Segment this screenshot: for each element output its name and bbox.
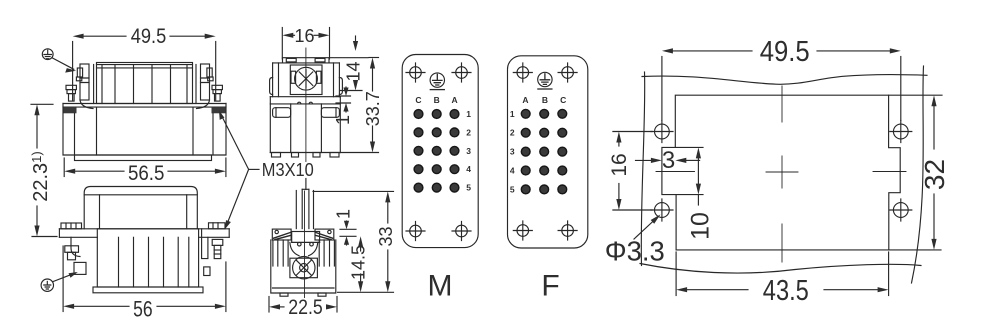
svg-text:1: 1 xyxy=(466,109,471,119)
svg-text:F: F xyxy=(541,270,559,303)
clip right xyxy=(321,108,339,118)
view B: female connector side view (bottom-left) xyxy=(41,187,229,293)
svg-text:10: 10 xyxy=(686,212,714,240)
dimension 49.5 (panel top) xyxy=(662,36,901,121)
screw shaft top xyxy=(302,188,309,190)
hood rib 3 xyxy=(151,65,153,104)
body bottom lip xyxy=(93,287,203,293)
bell top line xyxy=(292,241,320,243)
right bracket tab xyxy=(207,68,212,77)
upper side left xyxy=(272,63,274,97)
centerline D xyxy=(304,191,306,298)
M corner hole TR xyxy=(452,63,471,82)
view D: female connector end view (bottom-middle) xyxy=(271,189,336,297)
center tick bottom xyxy=(781,224,783,262)
left screw head xyxy=(66,85,76,89)
cutout top edge extension xyxy=(889,94,942,96)
body step right2 xyxy=(212,113,214,155)
svg-text:3: 3 xyxy=(466,146,471,156)
body flange line xyxy=(63,103,226,105)
dimension 10 (panel notch height) xyxy=(686,147,714,240)
leader arrowhead A xyxy=(65,68,76,73)
flange left edge xyxy=(58,229,60,238)
flange right edge xyxy=(228,229,230,238)
dimension 33.7 (view C far right) xyxy=(340,58,383,153)
screw slot vertical xyxy=(305,70,307,89)
body flange line2 xyxy=(63,106,226,108)
right flat screw head xyxy=(209,223,226,229)
svg-text:5: 5 xyxy=(510,184,515,194)
svg-text:3: 3 xyxy=(662,147,675,174)
top tab right xyxy=(315,58,325,62)
hood side wall left xyxy=(93,65,95,104)
bottom edge C xyxy=(270,152,340,154)
center block left wall xyxy=(290,104,292,153)
earth glyph B xyxy=(44,282,51,290)
hood inner top line2 xyxy=(97,67,193,69)
svg-text:C: C xyxy=(415,95,421,105)
screw shaft outer right xyxy=(313,191,315,229)
M ground contact symbol xyxy=(430,73,444,90)
screw shaft outer left xyxy=(295,191,297,229)
side latch right xyxy=(339,78,342,95)
screw shaft inner left xyxy=(301,189,303,228)
foot D right xyxy=(318,293,326,296)
clip left inner xyxy=(275,108,277,118)
leader to view D screw xyxy=(305,179,307,190)
hood side wall right xyxy=(195,65,197,104)
foot 4 xyxy=(330,153,339,158)
center block right wall xyxy=(320,104,322,153)
svg-text:1: 1 xyxy=(334,209,354,219)
dimension 22.3 (left vertical) xyxy=(29,104,57,236)
foot 3 xyxy=(313,153,320,158)
left bracket tab xyxy=(77,68,82,77)
hood inner wall left xyxy=(101,65,103,104)
dimension 14 (view C right) xyxy=(330,36,368,91)
right small tab xyxy=(204,267,210,276)
tiny bump right xyxy=(309,102,312,104)
mid centerline left xyxy=(656,171,695,173)
foot 1 xyxy=(272,153,281,158)
left outer edge xyxy=(269,97,271,153)
svg-text:A: A xyxy=(452,95,458,105)
ground symbol top-left xyxy=(42,49,76,73)
hood rib 2 xyxy=(133,65,135,104)
ribbed hood outline xyxy=(97,63,193,104)
svg-text:M: M xyxy=(428,270,453,303)
dimension 1 (view C right) xyxy=(333,87,353,125)
flange right clamp xyxy=(315,229,334,240)
svg-text:56: 56 xyxy=(133,296,153,321)
left flat screw hatch xyxy=(65,223,67,229)
left clamp dark band xyxy=(63,107,77,113)
panel cutout drawing (right) xyxy=(605,36,950,307)
left clamp spring xyxy=(274,233,291,240)
right J-lever xyxy=(197,100,210,109)
left flat screw hatch3 xyxy=(75,223,77,229)
left lower screw head xyxy=(65,246,79,253)
dimension 56.5 (view A bottom) xyxy=(64,158,226,185)
left clamp nub xyxy=(275,230,278,233)
screw circle D xyxy=(293,257,315,279)
right lower screw thread xyxy=(214,249,221,251)
panel torn outline xyxy=(642,74,927,84)
hole BR xyxy=(890,199,912,221)
M corner hole BR xyxy=(452,222,471,241)
svg-text:49.5: 49.5 xyxy=(131,25,167,48)
left bracket column lines xyxy=(80,78,89,83)
mid line 2 xyxy=(270,103,340,105)
side latch left xyxy=(270,78,273,95)
right bracket tab2 xyxy=(208,77,213,81)
F corner hole BR xyxy=(558,221,577,240)
svg-text:14.5: 14.5 xyxy=(349,245,369,280)
body step left2 xyxy=(96,107,98,155)
right flat screw hatch2 xyxy=(217,223,219,229)
hood rib 4 xyxy=(170,65,172,104)
body rib 6 xyxy=(188,237,190,287)
notch bottom extension xyxy=(676,194,703,196)
hole TL xyxy=(651,120,673,142)
bell left curve xyxy=(290,242,299,255)
right lower screw thread2 xyxy=(214,253,221,255)
body outline xyxy=(63,104,226,156)
left clamp block xyxy=(74,262,86,274)
left J-bracket xyxy=(71,237,80,256)
clip right inner xyxy=(335,108,337,118)
clip left xyxy=(273,108,291,118)
dimension 3 (panel notch depth) xyxy=(636,147,700,174)
M corner hole TL xyxy=(406,63,425,82)
M row numbers xyxy=(466,109,471,193)
body rib 3 xyxy=(148,237,150,287)
hood inner top line xyxy=(97,64,193,66)
right arm lines xyxy=(319,240,329,266)
flange line2 left xyxy=(59,236,97,238)
right arm outer xyxy=(333,240,335,266)
right clamp spring xyxy=(316,233,333,240)
svg-text:1: 1 xyxy=(510,109,515,119)
center cross xyxy=(766,156,798,188)
svg-text:33.7: 33.7 xyxy=(363,91,383,126)
F column labels xyxy=(522,95,566,105)
dimension 16 (panel left) xyxy=(608,132,652,211)
svg-text:2: 2 xyxy=(466,127,471,137)
right bracket column xyxy=(201,64,210,100)
svg-text:22.5: 22.5 xyxy=(288,296,323,319)
M column labels xyxy=(415,95,457,105)
right screw shaft xyxy=(215,94,221,102)
center tick top xyxy=(781,86,783,122)
hood top inner line xyxy=(84,194,197,196)
svg-text:43.5: 43.5 xyxy=(763,275,809,307)
leader to clamp block xyxy=(53,273,76,282)
left flat screw hatch2 xyxy=(70,223,72,229)
right lower screw head xyxy=(212,239,223,245)
body bottom lip xyxy=(75,155,212,161)
svg-text:B: B xyxy=(542,95,548,105)
left screw shaft xyxy=(69,94,75,102)
cutout bottom edge extension xyxy=(889,249,941,251)
insert face M (male) xyxy=(402,55,478,303)
body rib 5 xyxy=(177,237,179,287)
foot 2 xyxy=(292,153,299,158)
svg-text:22.31): 22.31) xyxy=(29,151,52,202)
M pin grid xyxy=(414,110,459,192)
top edge xyxy=(273,62,340,64)
svg-text:C: C xyxy=(560,95,566,105)
dimension 33 (view D far right) xyxy=(313,191,396,292)
right clamp nub xyxy=(328,230,331,233)
view C: male connector end view (top-middle) xyxy=(270,48,343,162)
screw housing xyxy=(290,65,322,95)
dimension 49.5 (view A top) xyxy=(73,25,216,100)
screw shaft inner right xyxy=(308,189,310,228)
right flat screw hatch xyxy=(212,223,214,229)
leader from ground symbol xyxy=(52,58,74,70)
flange center plate xyxy=(292,232,320,243)
svg-text:2: 2 xyxy=(510,128,515,138)
upper inner line xyxy=(278,63,280,97)
F ground contact symbol xyxy=(538,72,552,89)
svg-text:3: 3 xyxy=(510,147,515,157)
flange line xyxy=(59,228,229,230)
left J-lever xyxy=(80,100,93,109)
leader arrowhead B xyxy=(69,272,78,278)
dimension 22.5 (view D bottom) xyxy=(269,296,337,319)
left bracket column xyxy=(80,64,89,100)
upper side right xyxy=(338,63,340,97)
hole BL xyxy=(651,199,673,221)
body rib 4 xyxy=(163,237,165,287)
mid line 1 xyxy=(270,96,340,98)
top tab left xyxy=(286,58,296,62)
F corner hole TL xyxy=(513,63,532,82)
svg-text:4: 4 xyxy=(510,166,515,176)
svg-text:B: B xyxy=(434,95,440,105)
left arm lines xyxy=(278,240,288,266)
tiny bump left xyxy=(298,102,301,104)
left lower screw shaft xyxy=(68,252,76,259)
svg-text:4: 4 xyxy=(466,164,471,174)
bell nub right xyxy=(310,242,314,246)
F pin grid xyxy=(521,109,566,193)
F row numbers xyxy=(510,109,515,195)
right clamp dark band xyxy=(212,107,226,113)
body rib 2 xyxy=(133,237,135,287)
dimension 1 (view D) xyxy=(334,209,357,245)
M outline xyxy=(402,55,478,248)
F outline xyxy=(508,56,588,248)
svg-text:32: 32 xyxy=(919,159,950,190)
phillips slot X D xyxy=(296,260,311,275)
dimension 43.5 (panel bottom) xyxy=(676,252,889,307)
left bracket tab2 xyxy=(76,77,81,81)
svg-text:49.5: 49.5 xyxy=(760,36,810,68)
body outline D xyxy=(271,240,336,293)
F corner hole BL xyxy=(513,221,532,240)
hood inner wall left xyxy=(99,195,101,229)
phillips slot X xyxy=(299,72,313,86)
body step left xyxy=(74,113,76,155)
side wing left xyxy=(291,71,296,83)
M corner hole BL xyxy=(406,222,425,241)
right L-bracket xyxy=(202,229,208,259)
dimension 16 (view C top) xyxy=(282,26,329,59)
dimension 56 (view B bottom) xyxy=(63,246,226,321)
cutout opening xyxy=(662,95,900,250)
body rib 1 xyxy=(118,237,120,287)
screw circle C xyxy=(295,67,318,90)
svg-text:1: 1 xyxy=(333,115,353,125)
earth symbol circle B xyxy=(41,279,53,291)
side wing right xyxy=(316,71,321,83)
hood rounded block xyxy=(84,187,197,229)
label junction dash xyxy=(249,168,259,170)
dimension 32 (panel right) xyxy=(919,95,950,250)
svg-text:16: 16 xyxy=(608,153,631,176)
leader to view A clamp xyxy=(221,114,249,170)
svg-text:56.5: 56.5 xyxy=(128,162,165,185)
view A: male connector side view (top-left) xyxy=(63,63,226,161)
label M3X10 xyxy=(219,111,314,230)
svg-text:5: 5 xyxy=(466,183,471,193)
top face xyxy=(283,58,330,63)
centerline C xyxy=(305,48,307,162)
right screw head xyxy=(212,85,222,89)
right lower screw shaft xyxy=(214,245,221,258)
flange line2 right xyxy=(199,236,230,238)
bell right curve xyxy=(309,242,318,255)
hole TR xyxy=(890,120,912,142)
upper inner line2 xyxy=(333,63,335,97)
body lip line D xyxy=(273,287,335,289)
svg-text:M3X10: M3X10 xyxy=(262,160,314,180)
body step right xyxy=(192,107,194,155)
dimension 14.5 (view D right) xyxy=(349,236,369,292)
svg-text:14: 14 xyxy=(344,61,364,81)
mid centerline right xyxy=(873,171,906,173)
notch top extension xyxy=(675,146,703,148)
ribbed body outline xyxy=(97,229,198,287)
left flat screw head xyxy=(61,223,82,229)
hood rib 1 xyxy=(114,65,116,104)
right outer edge xyxy=(339,97,341,153)
F corner hole TR xyxy=(558,63,577,82)
bell nub left xyxy=(298,242,302,246)
hood inner wall right xyxy=(186,195,188,229)
foot D left xyxy=(280,293,288,296)
screw pocket xyxy=(290,258,318,278)
left arm outer xyxy=(272,240,274,266)
svg-text:33: 33 xyxy=(376,226,396,246)
flange left clamp xyxy=(272,229,291,240)
hood inner wall right xyxy=(186,65,188,104)
svg-text:Φ3.3: Φ3.3 xyxy=(605,235,665,266)
svg-text:A: A xyxy=(522,95,528,105)
svg-text:16: 16 xyxy=(294,26,314,46)
label diameter 3.3 xyxy=(605,214,665,266)
right bracket column lines xyxy=(201,78,210,83)
leader to view B screw xyxy=(226,169,249,226)
insert face F (female) xyxy=(508,56,588,303)
